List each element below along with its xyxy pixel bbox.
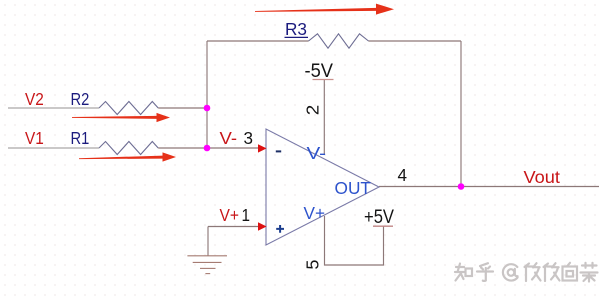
resistor R3 [309, 34, 369, 48]
svg-text:OUT: OUT [335, 178, 372, 198]
wire V2 row left segment [8, 107, 99, 109]
svg-text:R2: R2 [71, 89, 90, 109]
svg-text:+5V: +5V [364, 206, 394, 228]
svg-text:V+: V+ [304, 203, 326, 223]
wire non-inverting input [208, 226, 259, 228]
label R3 underline [285, 36, 309, 38]
op-amp minus mark [276, 150, 281, 152]
input arrowhead non-inverting [258, 222, 267, 230]
watermark zhihu [455, 263, 598, 282]
svg-text:V1: V1 [25, 128, 44, 148]
svg-text:V-: V- [307, 143, 327, 163]
junction node output [458, 183, 465, 190]
resistor R1 [99, 142, 158, 155]
svg-text:3: 3 [244, 128, 254, 148]
wire V1 row left segment [8, 147, 99, 149]
wire feedback top right segment [369, 40, 462, 42]
junction node B [204, 145, 211, 152]
power bar +5V [373, 225, 393, 227]
wire to ground [207, 227, 209, 256]
wire vertical node A to node B [206, 41, 208, 148]
wire R2 to node A [158, 107, 207, 109]
svg-text:R3: R3 [285, 19, 307, 39]
op-amp plus mark [276, 225, 284, 233]
wire feedback vertical right [460, 41, 462, 187]
svg-text:5: 5 [303, 260, 323, 270]
svg-text:1: 1 [242, 205, 251, 225]
svg-text:4: 4 [398, 165, 408, 185]
input arrowhead inverting [258, 144, 267, 152]
svg-text:R1: R1 [71, 128, 90, 148]
wire R1 to op-amp inverting input [158, 147, 259, 149]
wire pin 2 [323, 80, 325, 155]
svg-text:Vout: Vout [524, 167, 561, 187]
op-amp U1 body [266, 129, 379, 245]
annotation arrow top [255, 4, 394, 15]
svg-text:V-: V- [220, 128, 238, 148]
svg-text:V2: V2 [25, 89, 44, 109]
wire output [379, 186, 599, 188]
wire feedback top left segment [207, 40, 309, 42]
svg-text:2: 2 [303, 105, 323, 116]
annotation arrow R1 [79, 152, 176, 161]
junction node A [204, 105, 211, 112]
ground [187, 256, 227, 274]
power bar -5V [313, 79, 334, 81]
wire pin 5 [325, 216, 384, 265]
svg-text:-5V: -5V [305, 60, 334, 82]
svg-text:V+: V+ [220, 205, 240, 225]
annotation arrow R2 [72, 113, 170, 122]
resistor R2 [99, 102, 158, 115]
